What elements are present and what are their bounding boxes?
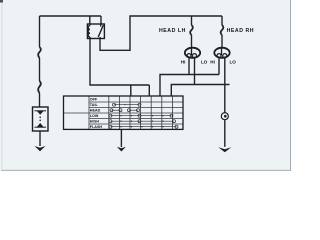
svg-text:OFF: OFF	[90, 98, 98, 102]
svg-text:FLASH: FLASH	[90, 125, 103, 129]
svg-text:HI: HI	[181, 60, 186, 65]
svg-text:HI: HI	[210, 60, 215, 65]
svg-text:TAIL: TAIL	[90, 103, 99, 107]
svg-text:LO: LO	[230, 60, 237, 65]
svg-text:HEAD LH: HEAD LH	[159, 28, 186, 34]
svg-text:LO: LO	[201, 60, 208, 65]
svg-text:HIGH: HIGH	[90, 120, 100, 124]
svg-text:HEAD: HEAD	[90, 109, 101, 113]
svg-text:LOW: LOW	[90, 114, 99, 118]
svg-text:HEAD RH: HEAD RH	[227, 28, 254, 34]
